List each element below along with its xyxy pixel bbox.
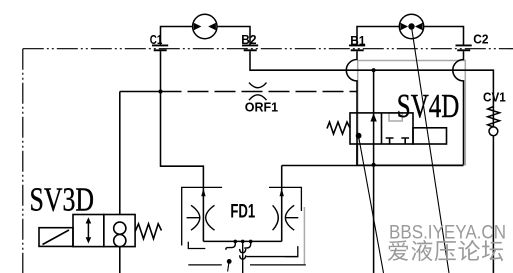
svg-text:BBS.IYEYA.CN: BBS.IYEYA.CN <box>389 221 506 243</box>
svg-text:ORF1: ORF1 <box>245 100 278 114</box>
svg-text:C2: C2 <box>473 31 488 46</box>
svg-text:SV3D: SV3D <box>30 182 95 219</box>
svg-text:C1: C1 <box>150 32 163 47</box>
svg-text:SV4D: SV4D <box>397 88 460 125</box>
svg-text:B1: B1 <box>350 33 365 48</box>
svg-text:FD1: FD1 <box>230 201 255 222</box>
svg-text:CV1: CV1 <box>483 89 506 104</box>
svg-text:B2: B2 <box>241 32 256 47</box>
